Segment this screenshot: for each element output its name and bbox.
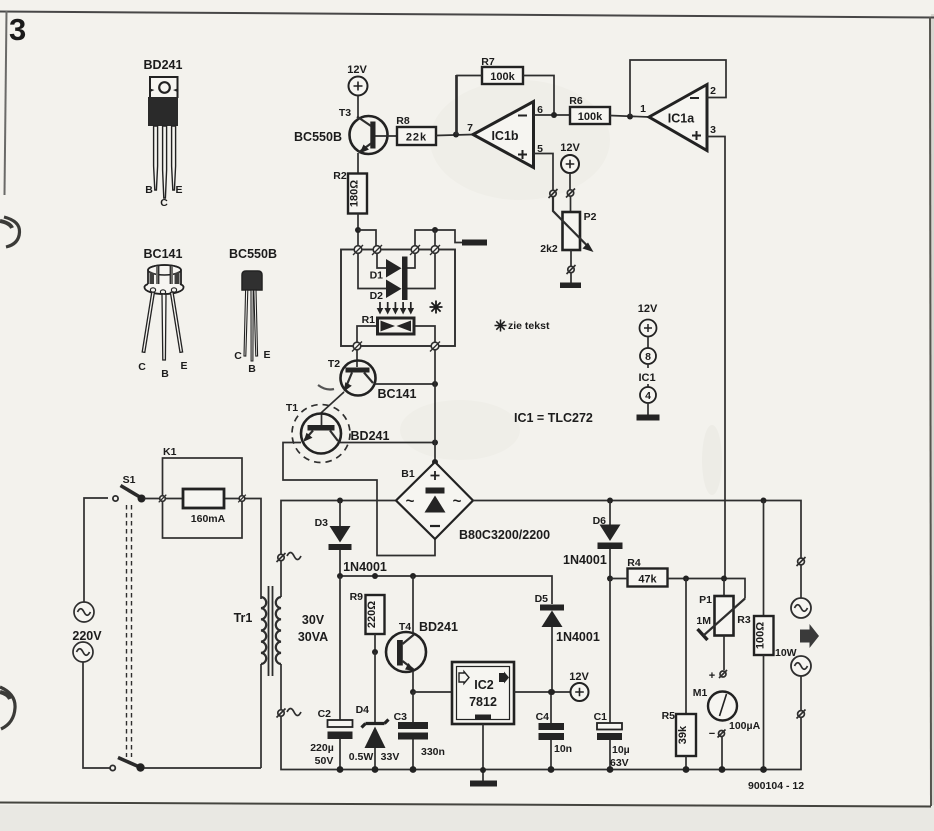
svg-text:220V: 220V bbox=[72, 629, 102, 643]
svg-text:C: C bbox=[234, 350, 242, 362]
svg-text:C2: C2 bbox=[318, 708, 332, 720]
svg-text:C: C bbox=[160, 197, 168, 209]
svg-text:180Ω: 180Ω bbox=[349, 180, 361, 207]
svg-text:3: 3 bbox=[9, 12, 26, 47]
svg-text:Tr1: Tr1 bbox=[234, 611, 253, 625]
svg-text:10µ: 10µ bbox=[612, 744, 630, 756]
svg-text:C4: C4 bbox=[536, 711, 550, 723]
svg-text:7: 7 bbox=[467, 122, 473, 134]
svg-text:−: − bbox=[709, 728, 715, 740]
svg-text:B: B bbox=[248, 363, 256, 375]
svg-text:R2: R2 bbox=[333, 170, 347, 182]
svg-text:12V: 12V bbox=[638, 303, 658, 315]
svg-text:12V: 12V bbox=[347, 64, 367, 76]
svg-text:100µA: 100µA bbox=[729, 720, 761, 732]
svg-text:C1: C1 bbox=[594, 711, 608, 723]
svg-text:R9: R9 bbox=[350, 591, 364, 603]
svg-text:10W: 10W bbox=[775, 647, 797, 659]
svg-text:T3: T3 bbox=[339, 107, 351, 119]
svg-text:S1: S1 bbox=[123, 474, 136, 486]
svg-text:D2: D2 bbox=[370, 290, 384, 302]
svg-text:BC550B: BC550B bbox=[294, 130, 342, 144]
svg-text:10n: 10n bbox=[554, 743, 572, 755]
svg-text:47k: 47k bbox=[638, 574, 657, 586]
svg-text:D5: D5 bbox=[535, 593, 549, 605]
svg-text:1M: 1M bbox=[696, 615, 711, 627]
svg-text:D1: D1 bbox=[370, 270, 384, 282]
svg-text:E: E bbox=[180, 360, 187, 372]
svg-text:K1: K1 bbox=[163, 446, 177, 458]
svg-text:P1: P1 bbox=[699, 594, 712, 606]
svg-text:BD241: BD241 bbox=[351, 429, 390, 443]
svg-text:63V: 63V bbox=[610, 757, 629, 769]
svg-text:900104 - 12: 900104 - 12 bbox=[748, 780, 804, 792]
svg-text:1N4001: 1N4001 bbox=[343, 560, 387, 574]
svg-text:B: B bbox=[145, 184, 153, 196]
svg-text:T2: T2 bbox=[328, 358, 340, 370]
svg-text:zie tekst: zie tekst bbox=[508, 320, 550, 332]
svg-text:33V: 33V bbox=[381, 751, 400, 763]
svg-text:IC1b: IC1b bbox=[491, 129, 518, 143]
svg-text:1N4001: 1N4001 bbox=[556, 630, 600, 644]
svg-text:B: B bbox=[161, 368, 169, 380]
svg-text:R8: R8 bbox=[396, 115, 410, 127]
svg-text:30V: 30V bbox=[302, 613, 325, 627]
svg-text:E: E bbox=[263, 349, 270, 361]
svg-text:1: 1 bbox=[640, 103, 646, 115]
svg-text:T4: T4 bbox=[399, 621, 411, 633]
svg-text:330n: 330n bbox=[421, 746, 445, 758]
svg-text:2: 2 bbox=[710, 85, 716, 97]
svg-text:R6: R6 bbox=[569, 95, 583, 107]
svg-text:100k: 100k bbox=[578, 111, 603, 123]
svg-text:IC1: IC1 bbox=[638, 372, 655, 384]
svg-text:2k2: 2k2 bbox=[540, 243, 558, 255]
svg-text:50V: 50V bbox=[315, 755, 334, 767]
svg-text:220µ: 220µ bbox=[310, 742, 334, 754]
svg-text:IC2: IC2 bbox=[474, 678, 494, 692]
svg-text:12V: 12V bbox=[569, 671, 589, 683]
svg-text:12V: 12V bbox=[560, 142, 580, 154]
svg-text:P2: P2 bbox=[584, 211, 597, 223]
svg-text:22k: 22k bbox=[406, 132, 427, 144]
svg-text:T1: T1 bbox=[286, 402, 298, 414]
svg-text:4: 4 bbox=[645, 390, 651, 402]
svg-text:39k: 39k bbox=[677, 725, 689, 744]
svg-text:220Ω: 220Ω bbox=[366, 601, 378, 628]
svg-text:1N4001: 1N4001 bbox=[563, 553, 607, 567]
svg-text:3: 3 bbox=[710, 124, 716, 136]
svg-text:100k: 100k bbox=[490, 71, 515, 83]
svg-text:+: + bbox=[709, 670, 715, 682]
svg-text:R3: R3 bbox=[737, 614, 751, 626]
svg-text:M1: M1 bbox=[693, 687, 708, 699]
svg-text:E: E bbox=[175, 184, 182, 196]
svg-text:30VA: 30VA bbox=[298, 630, 328, 644]
svg-text:8: 8 bbox=[645, 351, 651, 363]
svg-text:B1: B1 bbox=[401, 468, 415, 480]
svg-text:R1: R1 bbox=[362, 314, 376, 326]
svg-text:C3: C3 bbox=[394, 711, 408, 723]
svg-text:R5: R5 bbox=[662, 710, 676, 722]
svg-text:D3: D3 bbox=[315, 517, 329, 529]
svg-text:~: ~ bbox=[453, 493, 462, 510]
svg-text:IC1 = TLC272: IC1 = TLC272 bbox=[514, 411, 593, 425]
svg-text:B80C3200/2200: B80C3200/2200 bbox=[459, 528, 550, 542]
svg-text:BC141: BC141 bbox=[378, 387, 417, 401]
svg-text:R4: R4 bbox=[627, 557, 641, 569]
svg-text:BC141: BC141 bbox=[144, 247, 183, 261]
svg-text:C: C bbox=[138, 361, 146, 373]
svg-text:BC550B: BC550B bbox=[229, 247, 277, 261]
svg-text:7812: 7812 bbox=[469, 695, 497, 709]
svg-text:0.5W: 0.5W bbox=[349, 751, 374, 763]
svg-text:IC1a: IC1a bbox=[668, 112, 695, 126]
svg-text:100Ω: 100Ω bbox=[755, 622, 767, 649]
svg-text:~: ~ bbox=[406, 493, 415, 510]
svg-text:BD241: BD241 bbox=[144, 58, 183, 72]
svg-text:BD241: BD241 bbox=[419, 620, 458, 634]
svg-text:160mA: 160mA bbox=[191, 513, 226, 525]
svg-text:D4: D4 bbox=[356, 704, 370, 716]
